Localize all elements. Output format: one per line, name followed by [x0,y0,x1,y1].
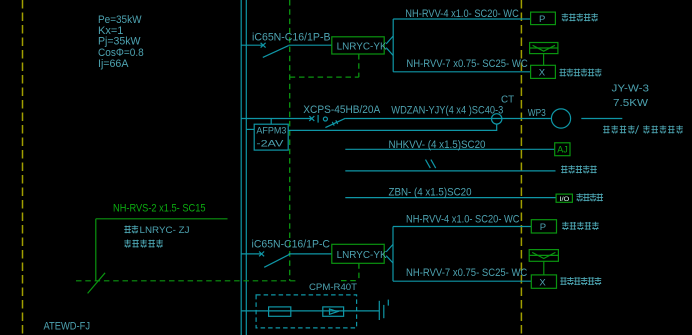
svg-text:ZBN- (4 x1.5)SC20: ZBN- (4 x1.5)SC20 [389,186,472,198]
svg-text:AFPM3: AFPM3 [256,126,286,136]
svg-text:LNRYC-YK: LNRYC-YK [337,250,387,261]
svg-text:CT: CT [501,95,514,106]
svg-text:Pj=35kW: Pj=35kW [98,36,141,48]
svg-text:AJ: AJ [557,145,568,155]
svg-text:XCPS-45HB/20A: XCPS-45HB/20A [303,104,381,116]
svg-text:iC65N-C16/1P-B: iC65N-C16/1P-B [252,32,331,44]
svg-text:WP3: WP3 [528,108,546,119]
svg-text:P: P [540,222,546,233]
svg-text:X: X [539,277,546,288]
svg-text:-2AV: -2AV [256,138,284,148]
svg-text:X: X [539,68,546,79]
svg-text:NH-RVV-7 x0.75- SC25- WC: NH-RVV-7 x0.75- SC25- WC [406,58,528,70]
svg-text:CPM-R40T: CPM-R40T [309,282,357,292]
svg-text:Ij=66A: Ij=66A [98,58,129,70]
svg-text:NH-RVV-4 x1.0- SC20- WC: NH-RVV-4 x1.0- SC20- WC [406,213,520,225]
svg-text:WDZAN-YJY(4 x4 )SC40-3: WDZAN-YJY(4 x4 )SC40-3 [391,105,503,117]
svg-text:I/O: I/O [559,197,569,203]
svg-text:ATEWD-FJ: ATEWD-FJ [44,320,91,332]
svg-text:P: P [539,14,545,25]
svg-text:NH-RVV-4 x1.0- SC20- WC: NH-RVV-4 x1.0- SC20- WC [405,8,519,20]
svg-text:iC65N-C16/1P-C: iC65N-C16/1P-C [252,239,331,251]
svg-text:LNRYC-YK: LNRYC-YK [337,42,387,53]
svg-text:LNRYC- ZJ: LNRYC- ZJ [140,225,190,236]
svg-text:NH-RVS-2 x1.5- SC15: NH-RVS-2 x1.5- SC15 [113,203,206,215]
svg-text:JY-W-3: JY-W-3 [612,83,650,94]
svg-text:NHKVV- (4 x1.5)SC20: NHKVV- (4 x1.5)SC20 [389,139,486,151]
svg-text:7.5KW: 7.5KW [613,98,649,109]
svg-text:NH-RVV-7 x0.75- SC25- WC: NH-RVV-7 x0.75- SC25- WC [406,267,528,279]
